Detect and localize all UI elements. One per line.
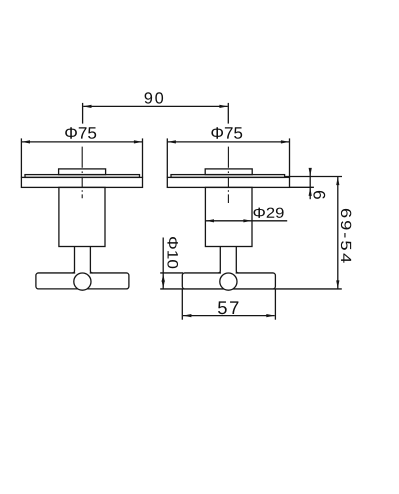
- handle bottom long line right segment: [232, 288, 342, 290]
- right dimension Phi75 line: [168, 141, 290, 143]
- left dimension Phi75 left arrow: [22, 140, 31, 143]
- left dimension Phi75 line: [22, 141, 143, 143]
- dimension 57 text: [218, 301, 238, 314]
- left fixture body cylinder: [59, 187, 105, 246]
- dimension 57 right extension line: [274, 289, 276, 320]
- dimension 90 line: [83, 105, 228, 107]
- left fixture hub circle: [74, 273, 91, 290]
- left fixture stem right edge: [90, 247, 92, 273]
- dimension Phi29 line with leader: [206, 220, 287, 222]
- left fixture top cap rectangle: [59, 169, 106, 175]
- dimension 57 left arrow: [183, 314, 192, 317]
- right fixture centerline: [227, 147, 229, 203]
- left fixture centerline: [81, 147, 83, 199]
- right fixture top cap rectangle: [205, 169, 252, 175]
- left fixture stem gap cover: [75, 272, 90, 275]
- dimension 69-54 top arrow: [336, 177, 339, 186]
- dimension Phi29 right arrow: [243, 219, 252, 222]
- dimension 69-54 line: [337, 177, 339, 289]
- right fixture stem right edge: [236, 247, 238, 273]
- dimension 6 top extension line: [285, 176, 342, 178]
- dimension Phi10 down arrow: [162, 280, 165, 289]
- right dimension Phi75 left arrow: [167, 140, 176, 143]
- dimension 90 text: [145, 92, 164, 103]
- dimension 69-54 bottom arrow: [336, 280, 339, 289]
- left fixture flange plate: [21, 177, 142, 187]
- right dimension Phi75 right arrow: [281, 140, 290, 143]
- dimension 57 right arrow: [266, 314, 275, 317]
- right fixture stem gap cover: [221, 272, 236, 275]
- dimension 90 right arrow: [219, 105, 228, 108]
- dimension 57 line: [183, 315, 275, 317]
- dimension Phi10 up arrow: [162, 273, 165, 282]
- right dimension Phi75 text: [211, 127, 242, 139]
- handle bottom long line left segment: [160, 288, 225, 290]
- left fixture stem left edge: [72, 247, 74, 273]
- left fixture handle bar: [36, 273, 129, 289]
- dimension Phi10 text: [167, 237, 178, 268]
- dimension 57 left extension line: [181, 289, 183, 320]
- dimension Phi10 line: [162, 238, 164, 290]
- dimension 6 text: [313, 191, 325, 199]
- dimension 90 left arrow: [83, 105, 92, 108]
- right dimension Phi75 left extension line: [166, 138, 168, 177]
- dimension 69-54 text: [341, 209, 351, 263]
- right fixture hub circle: [220, 273, 237, 290]
- dimension 6 up arrow below: [309, 187, 312, 196]
- right fixture escutcheon top strip: [171, 175, 285, 178]
- left dimension Phi75 text: [65, 127, 96, 139]
- right fixture stem left edge: [218, 247, 220, 273]
- left fixture escutcheon top strip: [25, 175, 140, 178]
- left dimension Phi75 left extension line: [20, 138, 22, 177]
- dimension 6 down arrow above: [309, 168, 312, 177]
- dimension 6 bottom extension line: [290, 186, 314, 188]
- dimension Phi29 left arrow: [206, 219, 215, 222]
- left dimension Phi75 right arrow: [134, 140, 143, 143]
- right dimension Phi75 right extension line: [289, 138, 291, 177]
- dimension Phi10 top extension line: [160, 272, 183, 274]
- right fixture handle bar: [182, 273, 275, 289]
- dimension 6 line: [309, 169, 311, 200]
- dimension 90 left extension line: [82, 103, 84, 124]
- right fixture body cylinder: [205, 187, 252, 246]
- dimension Phi29 text: [254, 208, 284, 218]
- right fixture flange plate: [167, 177, 289, 187]
- dimension 90 right extension line: [227, 103, 229, 124]
- left dimension Phi75 right extension line: [142, 138, 144, 177]
